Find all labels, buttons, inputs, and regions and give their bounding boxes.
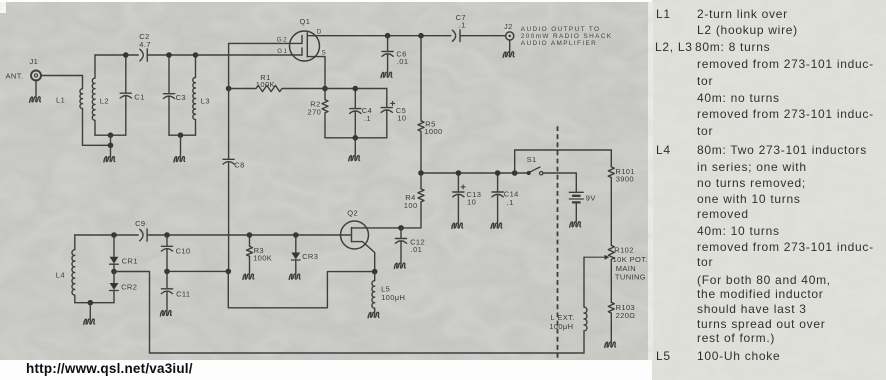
node bus C14 — [495, 170, 501, 176]
wire varactor junction to bottom bus — [114, 272, 150, 354]
connector J1 — [30, 57, 42, 81]
diode CR2 — [110, 272, 138, 303]
ground under tank1 — [104, 145, 115, 162]
wire supply bus — [421, 172, 527, 174]
wire bus C2 to Q1 G1 — [147, 54, 302, 56]
PANEL TEXT — [656, 7, 671, 21]
capacitor C3 — [163, 55, 186, 135]
node drain C6 — [385, 33, 391, 39]
node gate rail CR1 — [111, 232, 117, 238]
node Q2 drain C12 — [398, 225, 404, 231]
diode CR1 — [110, 235, 138, 272]
svg-text:270: 270 — [308, 108, 322, 117]
capacitor C1 — [120, 55, 144, 135]
label audio output — [521, 26, 613, 47]
svg-text:.1: .1 — [364, 114, 371, 123]
resistor R101 — [608, 150, 635, 245]
svg-text:200mW RADIO SHACK: 200mW RADIO SHACK — [521, 33, 613, 40]
svg-text:L4: L4 — [56, 270, 65, 279]
wire Q2 gate rail left — [75, 234, 138, 236]
svg-text:G1: G1 — [277, 48, 288, 55]
capacitor C4 — [350, 89, 372, 138]
inductor L5 — [372, 272, 405, 312]
svg-text:Q2: Q2 — [347, 208, 358, 217]
wire Q2 gate rail right — [147, 234, 351, 236]
svg-text:C10: C10 — [176, 247, 191, 256]
node drain R5 — [418, 33, 424, 39]
svg-text:C1: C1 — [134, 93, 144, 102]
node tank1 lower — [108, 143, 114, 149]
svg-text:.01: .01 — [397, 57, 409, 66]
wire Q1 source lead — [307, 57, 325, 89]
inductor L EXT 100uH — [549, 257, 587, 353]
svg-text:100μH: 100μH — [381, 293, 405, 302]
capacitor C2 — [139, 32, 151, 61]
wire bus up and over to R101 — [515, 150, 612, 173]
node L4 ground — [88, 300, 94, 306]
wire R2 C4 C5 bottom rail — [325, 137, 387, 139]
connector J2 — [504, 22, 514, 40]
ground under J1 — [30, 80, 41, 103]
wire tank1 bottom rail — [95, 134, 126, 136]
wire Q2 drain lead — [352, 227, 402, 229]
svg-text:10K POT.: 10K POT. — [613, 255, 648, 264]
ground under R103 — [605, 342, 616, 347]
wire rail to C4 C5 — [325, 88, 387, 90]
wire tank2 bottom rail — [169, 134, 196, 136]
svg-text:220Ω: 220Ω — [616, 311, 636, 320]
wire L1 bottom rail — [83, 144, 111, 146]
svg-text:C8: C8 — [234, 160, 244, 169]
dashed enclosure line — [557, 126, 559, 359]
inductor L1 — [56, 89, 83, 146]
ground under L5 — [368, 312, 379, 317]
resistor R4 — [401, 173, 424, 228]
svg-text:AUDIO OUTPUT TO: AUDIO OUTPUT TO — [521, 26, 601, 33]
wire source return jog — [228, 271, 374, 307]
svg-text:CR2: CR2 — [121, 283, 137, 292]
node bus corner wire — [512, 170, 518, 176]
svg-text:CR1: CR1 — [122, 257, 138, 266]
ground under C11 — [160, 311, 171, 316]
ground under battery — [570, 202, 581, 227]
node bus C13 — [456, 170, 462, 176]
node tank1 upper — [108, 132, 114, 138]
node L5 top — [372, 269, 378, 275]
wire Q2 source lead — [352, 242, 375, 272]
ground under C13 — [452, 223, 463, 228]
svg-text:.1: .1 — [507, 198, 514, 207]
inductor L3 — [193, 55, 210, 135]
wire S1 to battery — [543, 173, 576, 192]
svg-text:S1: S1 — [527, 155, 537, 164]
resistor R103 — [608, 302, 635, 341]
wire C10 junction to jog — [167, 270, 228, 272]
svg-text:10: 10 — [467, 198, 476, 207]
switch S1 — [527, 155, 543, 175]
ground under R3 — [243, 274, 254, 279]
svg-text:.01: .01 — [411, 245, 423, 254]
svg-text:100μH: 100μH — [549, 322, 573, 331]
wire Q1 drain lead — [307, 35, 451, 37]
svg-text:J1: J1 — [30, 57, 39, 66]
node bus R5 R4 — [418, 170, 424, 176]
ground under C4 — [349, 138, 360, 161]
svg-text:AUDIO AMPLIFIER: AUDIO AMPLIFIER — [521, 40, 597, 47]
node gate rail C10 — [164, 232, 170, 238]
capacitor C11 — [161, 271, 190, 309]
diode CR3 — [291, 235, 318, 273]
inductor L4 — [56, 235, 75, 303]
svg-text:100K: 100K — [253, 254, 272, 263]
node tank2 — [178, 132, 184, 138]
wire L4 bottom rail — [75, 302, 114, 304]
svg-text:100K: 100K — [256, 80, 275, 89]
svg-text:3900: 3900 — [616, 174, 634, 183]
resistor R3 — [247, 235, 273, 273]
capacitor C9 — [135, 219, 147, 241]
potentiometer R102 — [608, 245, 648, 302]
svg-text:R102: R102 — [614, 245, 634, 254]
svg-text:L3: L3 — [201, 97, 210, 106]
svg-text:CR3: CR3 — [302, 252, 318, 261]
ground under CR3 — [289, 274, 300, 279]
svg-text:ANT.: ANT. — [6, 72, 24, 81]
node R1 right / Q1 source — [322, 86, 328, 92]
wire tank1 stub — [110, 135, 112, 145]
capacitor C7 — [452, 13, 505, 42]
svg-text:J2: J2 — [504, 22, 513, 31]
node jog left — [226, 269, 232, 275]
svg-text:S: S — [322, 50, 328, 57]
svg-text:TUNING: TUNING — [615, 273, 646, 282]
ground under C12 — [394, 263, 405, 268]
transistor Q1 — [290, 17, 320, 61]
wire J1 to L1 — [41, 76, 83, 89]
ground under C14 — [491, 223, 502, 228]
svg-text:L EXT.: L EXT. — [551, 313, 575, 322]
resistor R2 — [308, 89, 329, 138]
ground under tank2 — [174, 135, 185, 162]
ground under J2 — [503, 40, 514, 57]
node C10 C11 junction — [164, 269, 170, 275]
capacitor C8 — [223, 89, 245, 272]
svg-text:L1: L1 — [56, 96, 65, 105]
svg-text:10: 10 — [397, 113, 406, 122]
capacitor C14 — [492, 173, 519, 222]
capacitor C10 — [161, 235, 190, 271]
node R1 left — [226, 86, 232, 92]
svg-text:G2: G2 — [277, 36, 288, 43]
svg-text:L2: L2 — [100, 97, 109, 106]
node rail C4 — [353, 86, 359, 92]
wire tank1 top bus — [95, 54, 138, 56]
capacitor C5 — [381, 89, 406, 138]
node CR1 CR2 junction — [111, 269, 117, 275]
svg-text:9V: 9V — [586, 194, 596, 203]
svg-text:C3: C3 — [176, 93, 186, 102]
capacitor C13 — [453, 173, 482, 222]
svg-text:D: D — [317, 29, 323, 36]
svg-text:Q1: Q1 — [300, 17, 311, 26]
svg-text:1000: 1000 — [424, 127, 442, 136]
svg-text:C11: C11 — [176, 289, 190, 298]
wire bottom bus — [150, 352, 585, 354]
inductor L2 — [92, 55, 109, 135]
node bottom rail — [353, 135, 359, 141]
capacitor C12 — [395, 228, 425, 262]
wiper arrow R102 — [584, 255, 609, 260]
transistor Q2 — [341, 208, 369, 249]
node bus L3 — [193, 52, 199, 58]
node gate rail CR3 — [293, 232, 299, 238]
node gate rail R3 — [247, 232, 253, 238]
node bus C3 — [166, 52, 172, 58]
svg-text:L5: L5 — [381, 284, 390, 293]
URL caption — [26, 361, 193, 376]
ground under C6 — [381, 72, 392, 77]
wire Q1 G2 lead — [229, 43, 302, 88]
ground under L4 — [84, 303, 95, 325]
svg-text:4.7: 4.7 — [139, 40, 151, 49]
capacitor C6 — [382, 36, 408, 72]
battery B1 9V — [569, 192, 595, 202]
svg-text:100: 100 — [404, 201, 418, 210]
resistor R5 — [418, 36, 443, 173]
svg-text:.1: .1 — [459, 20, 466, 29]
node bus C1 — [123, 52, 129, 58]
resistor R1 — [229, 73, 325, 92]
svg-text:C9: C9 — [135, 219, 145, 228]
